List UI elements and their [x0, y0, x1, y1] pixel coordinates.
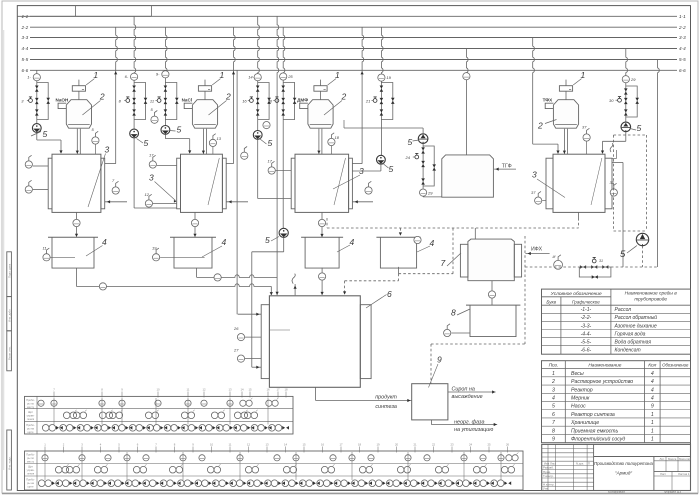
band2 signal tick [488, 447, 490, 453]
measuring vessel item4 M2 [170, 236, 216, 238]
signal direction arrows [122, 481, 125, 485]
band2 signal tick [44, 447, 46, 453]
svg-text:31: 31 [599, 259, 603, 263]
dashed header y344 [431, 343, 525, 345]
KIP bubble pair band1 mid [99, 412, 106, 419]
KIP instrument bubble band1 top [155, 400, 161, 406]
valve group main pipe x165.4 [164, 78, 166, 120]
svg-text:13: 13 [217, 136, 222, 141]
title block small row [542, 448, 594, 450]
pipe rail 3-3 [30, 37, 677, 39]
instrument bubble above reactor4 [583, 134, 590, 141]
band1 signal tick [53, 392, 55, 398]
bypass valve [293, 98, 297, 104]
signal direction arrows [247, 426, 250, 430]
instrument bubble head of valve group x36.8 [33, 74, 40, 81]
KIP bubble pair band2 bottom [299, 480, 306, 487]
KIP instrument bubble band1 top [51, 400, 57, 406]
KIP bubble pair band2 bottom [91, 480, 98, 487]
pump N5 outlet run [352, 170, 381, 172]
bypass valve [391, 98, 395, 104]
svg-text:9: 9 [651, 404, 654, 410]
dashed inlet to mernik M4 [399, 228, 401, 234]
KIP bubble pair band1 bottom [42, 425, 49, 432]
dashed header y228 [327, 227, 579, 229]
reactor item3 shell at x553.0 [553, 154, 605, 212]
svg-text:месту: месту [27, 461, 35, 464]
pump item5 N9 [636, 233, 648, 245]
dashed bottom of loop [614, 230, 647, 232]
svg-text:10: 10 [156, 388, 160, 392]
hand valve above IFH pipe [592, 259, 596, 263]
svg-text:Насос: Насос [571, 404, 586, 410]
svg-text:Наименование: Наименование [588, 362, 621, 368]
M2 level line [160, 256, 205, 258]
signal direction arrows [156, 481, 159, 485]
pipe to pump N7 [625, 120, 627, 123]
valve [624, 98, 628, 104]
leader to label 6 [366, 295, 387, 309]
valve on IFH pipe [580, 265, 586, 269]
svg-text:11: 11 [229, 443, 232, 447]
weigh box tick [82, 89, 84, 91]
KIP instrument bubble band2 top [105, 455, 111, 461]
pipe rail 4-4 [30, 48, 677, 50]
svg-text:4: 4 [552, 395, 555, 401]
valve [132, 98, 136, 104]
dashed right side of loop [646, 135, 648, 231]
wire drop rail4 to TGF tank [466, 49, 468, 155]
reactor3 right line b [352, 201, 373, 203]
pump N6 top line [422, 128, 424, 135]
mernik M1 outlet line [75, 268, 77, 286]
svg-text:37: 37 [610, 180, 615, 185]
band1 signal tick [229, 392, 231, 398]
M1 run to reactor6 [76, 284, 271, 287]
svg-text:5: 5 [389, 164, 394, 174]
TGF suction from tank bottom [423, 196, 442, 198]
left margin stamp cell 2 [7, 297, 12, 331]
bottom scan shadow [2, 493, 698, 495]
table2 col line [659, 361, 661, 443]
leader 4 M4 [417, 246, 430, 252]
signal direction arrows [143, 426, 146, 430]
band1 signal tick [203, 392, 205, 398]
table1 header split [542, 296, 611, 298]
KIP bubble pair band1 mid [211, 412, 218, 419]
leader to label 1 [86, 79, 94, 85]
signal direction arrows [52, 481, 55, 485]
KIP bubble pair band2 bottom [73, 480, 80, 487]
svg-text:6: 6 [552, 412, 555, 418]
pipe to pump N5 [380, 120, 382, 156]
table2 header line [542, 368, 691, 370]
KIP bubble pair band2 bottom [352, 480, 359, 487]
svg-text:37: 37 [531, 190, 536, 195]
pump N7 run to reactor4 [603, 140, 626, 142]
table2 outline [542, 361, 691, 443]
valve [164, 98, 168, 104]
valve [35, 86, 39, 92]
pipe rail 1-1 [30, 15, 677, 17]
table1 row line [542, 312, 691, 314]
hand valve stub [157, 99, 161, 103]
KIP bubble pair band1 top b [266, 400, 272, 406]
internal signal line band2 [463, 452, 465, 480]
arrow into reactor6 c [321, 292, 324, 295]
svg-text:неорг. фаза: неорг. фаза [454, 419, 484, 425]
instrument bubble TGF feed line [463, 73, 470, 80]
pump N1 outlet run [37, 139, 61, 141]
pipe to pump [257, 120, 259, 131]
leader to label 3 [88, 154, 106, 208]
instrument bubble reactor3 drain [318, 219, 325, 226]
weigh box hanger line [565, 80, 567, 86]
svg-text:3: 3 [149, 173, 154, 183]
svg-text:трубопроводе: трубопроводе [634, 297, 667, 303]
arrow into mernik1 [75, 234, 78, 237]
KIP instrument bubble band2 top [424, 455, 430, 461]
instrument bubble reactor4 right [610, 189, 617, 196]
signal direction arrows [126, 426, 129, 430]
KIP bubble pair band2 bottom [212, 480, 219, 487]
dissolver vessel item2 at x320.5 [308, 100, 333, 129]
table1 outline [542, 289, 691, 354]
internal signal line band1 [155, 398, 157, 425]
band2 signal tick [414, 447, 416, 453]
svg-text:14: 14 [240, 388, 244, 392]
internal signal line band2 [126, 452, 128, 480]
instrument bubble head of valve group x283.2 [280, 73, 287, 80]
reactor1 left line b [33, 189, 48, 191]
dashed run y273.7 [399, 273, 454, 275]
KIP instrument bubble band2 top [199, 455, 205, 461]
pump item5 N8 [279, 228, 288, 237]
svg-text:Листов 1: Листов 1 [678, 472, 690, 476]
instrument bubble near M4 [414, 236, 421, 243]
wire drop rail6 to group G1 [36, 70, 38, 74]
IFH arrow [528, 252, 531, 255]
sirop line [448, 391, 496, 393]
band2 signal tick [63, 447, 65, 453]
KIP bubble pair band2 bottom [265, 480, 272, 487]
instrument bubble on M2 run [214, 274, 221, 281]
svg-text:18: 18 [335, 135, 340, 140]
internal signal line band2 [44, 452, 46, 480]
vessel bottom seam [310, 124, 332, 126]
TGF inlet line [494, 168, 516, 170]
bypass valve [144, 98, 148, 104]
table2 row line [542, 409, 691, 411]
svg-text:месту: месту [27, 406, 35, 409]
flow arrow into reactor [202, 151, 205, 154]
svg-text:3: 3 [552, 387, 555, 393]
table1 row line [542, 329, 691, 331]
signal direction arrows [195, 426, 198, 430]
instrument bubble 27 [237, 355, 244, 362]
group G5 tail down to pump N8 [282, 120, 284, 230]
band2 signal tick [266, 447, 268, 453]
band2 row sep 2 [25, 475, 524, 477]
wire drop rail2 to group G3 [165, 27, 167, 72]
filter9 shell [412, 384, 448, 420]
KIP bubble pair band2 mid [207, 466, 214, 473]
hand valve stub U4 [618, 98, 622, 102]
svg-text:Инв. дубл: Инв. дубл [7, 309, 11, 322]
solids feed nozzle [545, 103, 553, 108]
svg-text:ИФХ: ИФХ [531, 247, 543, 253]
svg-text:11: 11 [43, 246, 47, 251]
signal direction arrows [209, 481, 212, 485]
KIP bubble pair band2 bottom [56, 480, 63, 487]
svg-text:4: 4 [430, 238, 435, 248]
valve [421, 161, 425, 167]
band2 signal tick [229, 447, 231, 453]
svg-text:12: 12 [202, 388, 206, 392]
hand valve stub [29, 99, 33, 103]
svg-text:-6-6-: -6-6- [581, 348, 592, 354]
KIP bubble pair band1 bottom [199, 425, 206, 432]
svg-text:Весы: Весы [571, 371, 584, 377]
svg-text:15: 15 [248, 388, 252, 392]
signal direction arrows [435, 481, 438, 485]
vessel outlet pipe left [563, 129, 565, 155]
table2 row line [542, 384, 691, 386]
leader 5 [31, 132, 41, 137]
reactor item3 shell at x295.0 [295, 154, 349, 212]
KIP bubble pair band1 top a [240, 400, 246, 406]
KIP instrument bubble band2 top [368, 455, 374, 461]
wire drop rail3 to unit4 feed [533, 38, 535, 145]
arrow into reactor1 top [59, 150, 62, 153]
wire drop rail6 to reactor6 jacket a [236, 70, 238, 314]
svg-text:Прибо-: Прибо- [26, 478, 35, 482]
wire drop rail4 to group G8 [626, 49, 628, 76]
svg-text:Приемная емкость: Приемная емкость [571, 428, 618, 434]
pump item5 N6 [418, 134, 428, 144]
hand valve stub TGF [415, 155, 419, 159]
band2 outline [25, 451, 524, 490]
instrument bubble reactor2 drain [191, 219, 198, 226]
title block col [555, 444, 557, 490]
svg-text:3-3: 3-3 [679, 35, 686, 40]
svg-text:4-4: 4-4 [22, 46, 29, 51]
weigh box item1 at x566.0 [559, 86, 572, 92]
pump item5 N7 [621, 122, 631, 132]
reactor3 drain [321, 212, 323, 219]
wire drop rail1 to group G4 [258, 16, 260, 74]
reactor2 right line a [226, 163, 233, 165]
signal direction arrows [400, 481, 403, 485]
internal signal line band2 [81, 452, 83, 480]
svg-text:4: 4 [651, 371, 654, 377]
svg-text:Копировал: Копировал [608, 490, 625, 494]
KIP bubble pair band1 bottom [77, 425, 84, 432]
svg-text:Подп. дата: Подп. дата [7, 263, 11, 278]
svg-text:29: 29 [630, 77, 636, 82]
arrow into reactor2 top [188, 150, 191, 153]
weigh box item1 at x78.9 [72, 86, 85, 92]
svg-text:Инв. подл.: Инв. подл. [7, 456, 11, 470]
leader label3 unit2 [155, 182, 176, 201]
instrument bubble reactor4 left [535, 197, 542, 204]
TGF bypass [423, 146, 434, 186]
KIP bubble pair band2 bottom [404, 480, 411, 487]
svg-text:Реактор: Реактор [571, 387, 593, 393]
svg-text:Масса: Масса [668, 457, 677, 461]
drain to mernik1 [76, 227, 78, 237]
pipe rail 2-2 [30, 26, 677, 28]
svg-text:Поз.: Поз. [549, 362, 559, 368]
svg-text:27: 27 [233, 348, 239, 353]
svg-text:19: 19 [376, 443, 380, 447]
arrow into filter9 [407, 399, 410, 402]
band1 outline [25, 396, 294, 434]
svg-text:7: 7 [441, 258, 446, 268]
reactor2 internal weld line [208, 158, 219, 205]
arrow into reactor6 b [276, 292, 279, 295]
svg-text:Вода обратная: Вода обратная [615, 340, 652, 346]
title block name row [542, 477, 594, 479]
signal direction arrows [487, 481, 490, 485]
signal direction arrows [178, 426, 181, 430]
valve [380, 98, 384, 104]
svg-text:Графическое: Графическое [572, 299, 600, 304]
svg-text:2-2: 2-2 [678, 25, 686, 30]
band2 signal tick [377, 447, 379, 453]
KIP bubble pair band2 mid [397, 466, 404, 473]
reactor6 product drain [315, 387, 317, 400]
dashed header y280.8 [345, 280, 399, 282]
svg-text:23: 23 [450, 443, 454, 447]
internal signal line band2 [351, 452, 353, 480]
arrow into reactor2 [228, 200, 231, 203]
svg-text:5: 5 [620, 249, 626, 260]
wire drop rail2 to group G6 [381, 27, 383, 74]
line to reactor3 [276, 170, 292, 172]
svg-text:19: 19 [386, 75, 391, 80]
leader to label 9 [429, 364, 439, 388]
svg-text:Растворное устройство: Растворное устройство [571, 378, 633, 385]
signal direction arrows [452, 481, 455, 485]
pump N9 riser dashed [642, 246, 644, 267]
table1 col split [610, 289, 612, 354]
signal direction arrows [56, 426, 59, 430]
KIP bubble pair band2 mid [359, 466, 366, 473]
svg-text:26: 26 [506, 443, 510, 447]
internal signal line band1 [101, 398, 103, 425]
weigh box tick [208, 89, 210, 91]
unit4 feed run [533, 143, 558, 145]
KIP bubble pair band2 bottom [108, 480, 115, 487]
pipe rail 6-6 [30, 69, 677, 71]
internal signal line band1 [267, 398, 269, 425]
top stamp divider 2 [150, 6, 152, 17]
KIP instrument bubble band2 top [498, 455, 504, 461]
signal direction arrows [278, 481, 281, 485]
svg-text:2: 2 [99, 92, 105, 102]
wire drop rail2 to group G5 [283, 27, 285, 73]
feed into storage7 [474, 228, 476, 239]
KIP bubble pair band2 bottom [178, 480, 185, 487]
reactor4 drain dashed [578, 218, 580, 228]
bypass valve [432, 164, 436, 170]
svg-text:4: 4 [651, 387, 654, 393]
title block name row [542, 469, 594, 471]
svg-text:Рассол обратный: Рассол обратный [615, 314, 658, 321]
svg-text:Азотное дыхание: Азотное дыхание [614, 323, 657, 329]
signal direction arrows [417, 481, 420, 485]
svg-text:2-2: 2-2 [21, 25, 29, 30]
svg-text:Мерник: Мерник [571, 395, 590, 401]
svg-text:5-5: 5-5 [22, 57, 29, 62]
vessel outlet pipe left [76, 129, 78, 155]
svg-text:20: 20 [267, 98, 273, 103]
instrument bubble 29 [420, 189, 427, 196]
svg-text:17: 17 [268, 159, 273, 164]
arrow into mernik3 [320, 234, 323, 237]
svg-text:6-6: 6-6 [22, 68, 29, 73]
svg-text:Реактор синтеза: Реактор синтеза [571, 412, 615, 418]
svg-text:NaCl: NaCl [182, 98, 192, 103]
svg-text:21: 21 [413, 443, 417, 447]
valve [281, 109, 285, 115]
signal direction arrows [69, 481, 72, 485]
table2 row line [542, 417, 691, 419]
instrument bubble [149, 161, 156, 168]
pump N6 discharge run to vessel3 [344, 127, 423, 129]
signal direction arrows [313, 481, 316, 485]
instrument bubble on M3 outlet [319, 273, 326, 280]
KIP bubble pair band2 bottom [491, 480, 498, 487]
KIP bubble pair band1 bottom [147, 425, 154, 432]
IFH pipe dashed left [525, 266, 579, 268]
internal signal line band2 [182, 452, 184, 480]
vessel outlet pipe right [566, 129, 568, 155]
instrument bubble reactor2 right top [241, 152, 248, 159]
table2 col line [564, 361, 566, 443]
instrument bubble reactor1 drain [73, 219, 80, 226]
weigh box item1 at x205.0 [198, 86, 211, 92]
svg-text:15: 15 [302, 443, 306, 447]
riser from reactor to rails x233.5 [234, 27, 236, 163]
arrow into reactor4 top [601, 151, 604, 154]
svg-text:1: 1 [335, 70, 340, 80]
signal direction arrows [213, 426, 216, 430]
valve [421, 147, 425, 153]
svg-text:1: 1 [651, 420, 654, 426]
valve on IFH pipe [591, 265, 597, 269]
svg-text:NaOH: NaOH [56, 98, 69, 103]
valve group main pipe x36.8 [36, 81, 38, 120]
dissolver vessel item2 at x566.0 [553, 100, 578, 129]
KIP bubble pair band1 bottom [251, 425, 258, 432]
band2 signal tick [211, 447, 213, 453]
title block name row [542, 473, 594, 475]
valve [256, 109, 260, 115]
band2 signal tick [340, 447, 342, 453]
band2 signal tick [303, 447, 305, 453]
table2 row line [542, 425, 691, 427]
svg-text:6: 6 [387, 289, 392, 299]
svg-text:5: 5 [43, 129, 48, 139]
IFH bypass loop [579, 267, 611, 277]
KIP bubble pair band2 bottom [143, 480, 150, 487]
bypass valve [267, 98, 271, 104]
pump item5 N5 [377, 155, 386, 164]
valve [164, 109, 168, 115]
filter9 bottom drain [430, 420, 432, 425]
